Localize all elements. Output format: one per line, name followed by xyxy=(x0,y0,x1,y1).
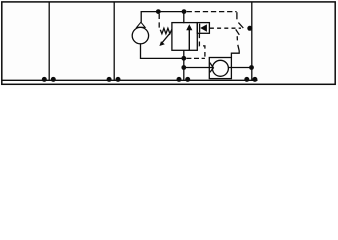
pilot drop dash 5 xyxy=(238,45,239,51)
junction dot xyxy=(185,77,190,82)
pilot drop dash 3 (diagonal) xyxy=(236,29,240,34)
wire: vertical port line 1 xyxy=(48,2,50,80)
check valve square xyxy=(197,23,209,34)
node: rail junction to vent branch xyxy=(156,9,161,14)
wire: line out of lower check valve xyxy=(228,67,252,69)
pilot line (dashed) vertical drop at right: dash 1 xyxy=(236,12,238,19)
wire: line into lower check valve xyxy=(184,67,213,69)
node: junction dot xyxy=(249,65,254,70)
spring (adjustable) of relief valve xyxy=(160,28,172,33)
check valve CV2: ball xyxy=(212,60,228,76)
wire: jog connecting drop to lower check valve xyxy=(231,51,239,58)
check valve CV2: V seat xyxy=(210,63,214,73)
check valve seat bar xyxy=(199,24,201,33)
junction dot xyxy=(107,77,112,82)
pilot line (dashed) staircase from check square down to drain xyxy=(199,34,205,59)
pilot line (dashed) from drain junction toward staircase xyxy=(186,57,205,59)
wire: valve outlet below body xyxy=(183,50,185,80)
wire: vertical port line 2 xyxy=(113,2,115,80)
pump P1: outlet triangle (filled) xyxy=(137,22,145,27)
junction dot xyxy=(42,77,47,82)
check valve poppet (filled left triangle) xyxy=(200,24,207,31)
flow arrow stem xyxy=(188,30,190,50)
node: junction dot on right port line xyxy=(247,26,252,31)
wire: flow line into valve top xyxy=(183,12,185,24)
junction dot xyxy=(51,77,56,82)
junction dot xyxy=(252,77,257,82)
pilot drop dash 2 (diagonal) xyxy=(238,23,243,28)
node: rail junction to valve xyxy=(182,9,187,14)
flow arrow (filled) inside valve xyxy=(186,24,192,30)
wire: bottom tank rail xyxy=(1,79,257,81)
junction dot xyxy=(116,77,121,82)
pilot line (dashed) vent from rail to spring xyxy=(158,14,160,30)
junction dot xyxy=(244,77,249,82)
pilot line (dashed) top rail extension xyxy=(187,11,237,13)
junction dot xyxy=(177,77,182,82)
wire: pump inlet down and across to valve drain xyxy=(141,44,185,59)
border frame xyxy=(2,2,335,84)
pilot line (dashed) from check valve outlet xyxy=(210,27,241,29)
pilot drop dash 4 xyxy=(236,36,238,40)
check valve CV2: square body xyxy=(209,58,231,79)
wire: vertical port line 4 xyxy=(251,2,253,80)
wire: top pressure rail xyxy=(141,12,184,23)
adjustment arrow head xyxy=(159,41,164,46)
relief valve: main square body xyxy=(172,23,197,51)
adjustment arrow across spring xyxy=(162,34,170,43)
pump P1: circle xyxy=(132,27,148,43)
node: junction dot xyxy=(181,65,186,70)
node: junction dot on drain line xyxy=(181,56,186,61)
